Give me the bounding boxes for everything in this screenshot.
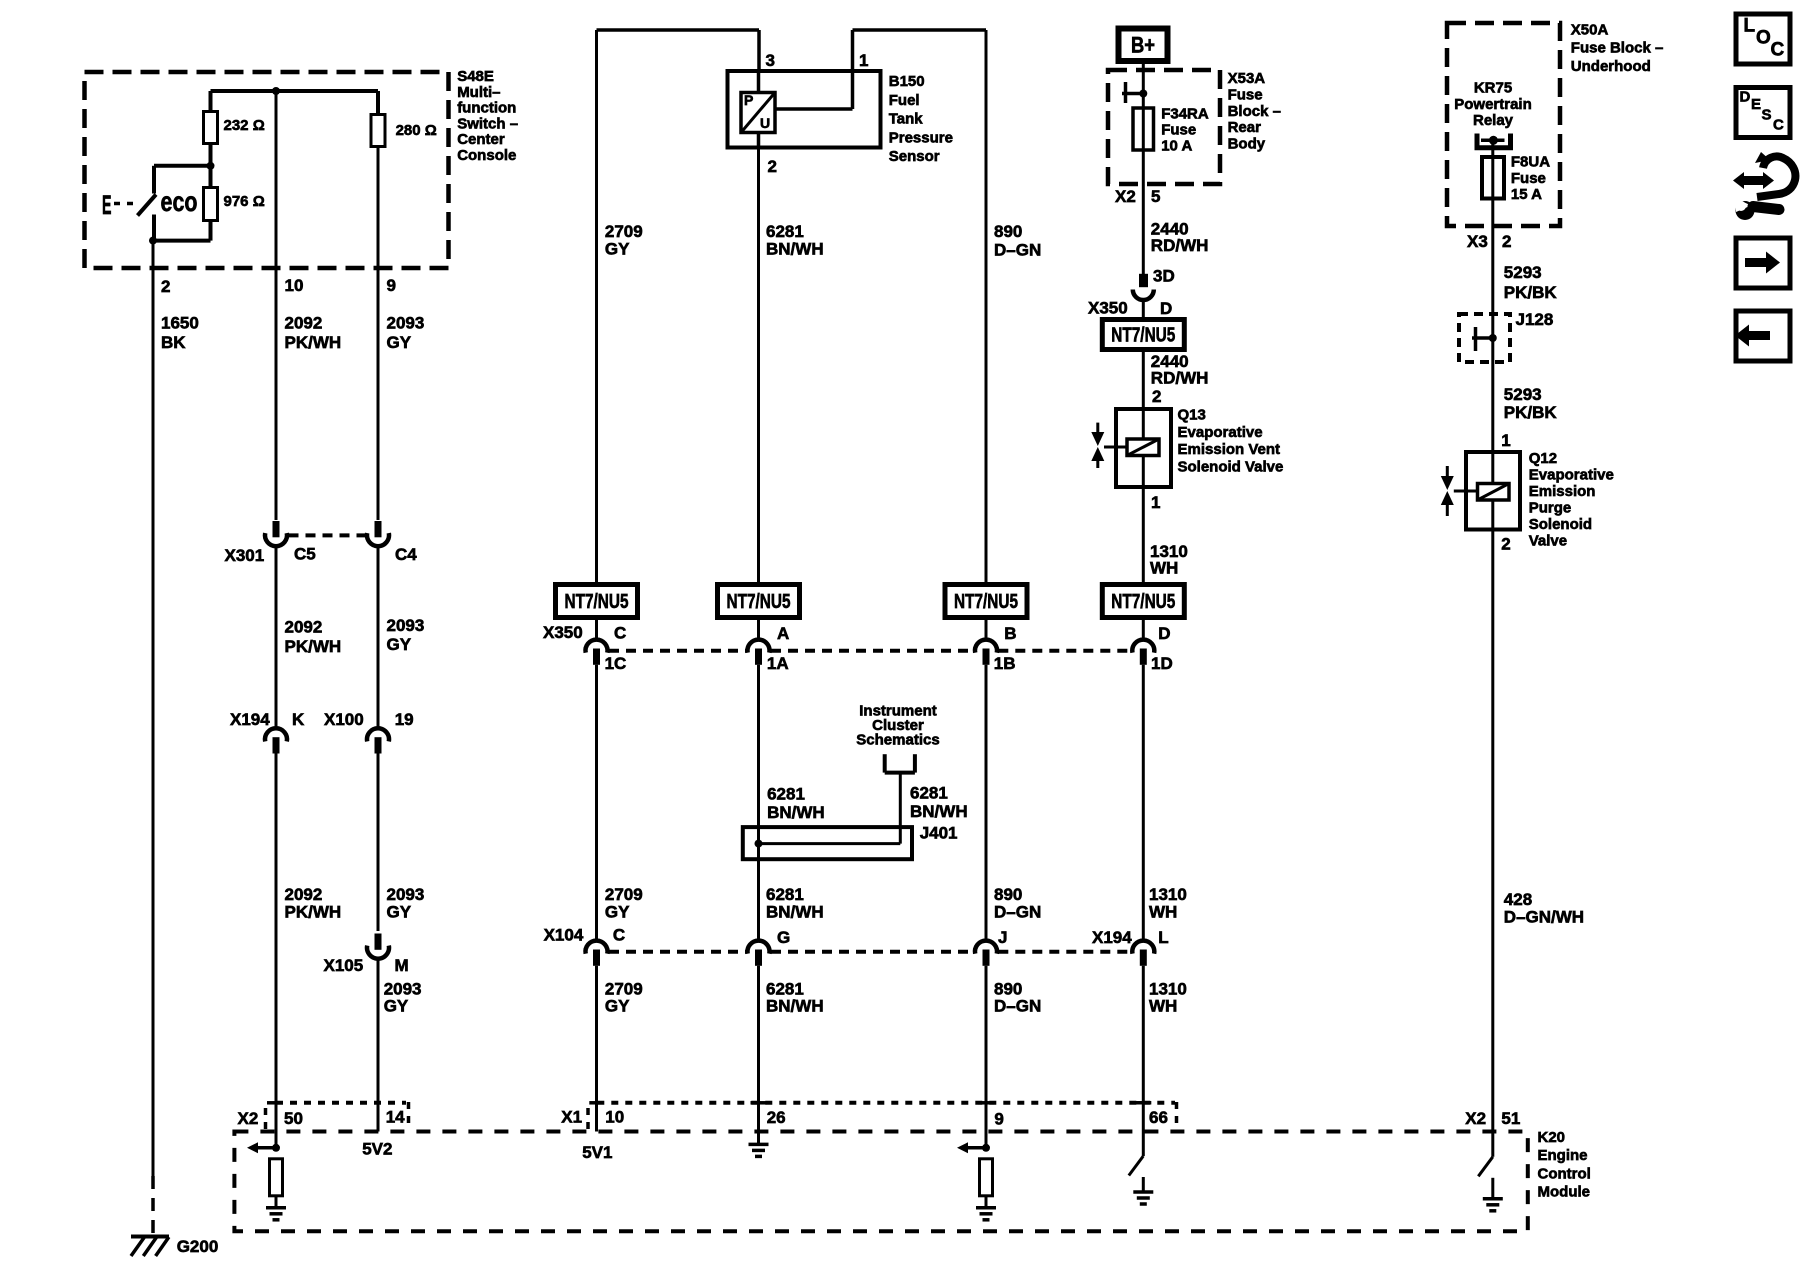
svg-text:1650: 1650: [161, 314, 199, 333]
switch to ground at ECM pin 51: [1491, 1133, 1494, 1157]
connector X301 pin C5: [265, 533, 287, 546]
svg-text:5293: 5293: [1504, 385, 1542, 404]
wire switch top contact: [154, 164, 211, 168]
svg-text:9: 9: [994, 1110, 1003, 1129]
svg-text:1310: 1310: [1149, 979, 1187, 998]
svg-text:50: 50: [284, 1109, 303, 1128]
resistor 280 Ohm: [376, 91, 380, 115]
grid reference NT7/NU5 box 1: [556, 585, 638, 618]
svg-text:BK: BK: [161, 333, 186, 352]
svg-text:10: 10: [605, 1108, 624, 1127]
svg-text:U: U: [760, 115, 770, 131]
svg-text:GY: GY: [387, 903, 412, 922]
svg-text:B+: B+: [1131, 33, 1155, 58]
svg-text:C: C: [1773, 117, 1784, 134]
wire B+ to fuse F34RA: [1142, 61, 1145, 274]
svg-text:1A: 1A: [767, 654, 789, 673]
connector X350 pin D upper cup: [1133, 290, 1154, 301]
svg-text:1: 1: [1151, 493, 1160, 512]
svg-text:X105: X105: [324, 956, 364, 975]
svg-text:D–GN/WH: D–GN/WH: [1504, 908, 1584, 927]
svg-text:Block –: Block –: [1228, 103, 1281, 120]
svg-text:GY: GY: [605, 997, 630, 1016]
wire 6281 BN/WH bottom segment: [757, 966, 760, 1145]
svg-text:D–GN: D–GN: [994, 241, 1041, 260]
svg-text:890: 890: [994, 222, 1022, 241]
svg-text:E: E: [1751, 96, 1761, 113]
svg-text:X350: X350: [543, 623, 583, 642]
ground at ECM pin 26: [749, 1143, 769, 1147]
wire 890 D-GN to X350: [985, 618, 988, 640]
svg-text:C: C: [613, 926, 625, 945]
svg-text:Solenoid: Solenoid: [1529, 516, 1592, 533]
splice J401 box: [743, 827, 912, 859]
svg-text:3D: 3D: [1153, 267, 1175, 286]
connector X104 pin C: [586, 941, 608, 954]
svg-text:2092: 2092: [285, 618, 323, 637]
svg-text:NT7/NU5: NT7/NU5: [565, 591, 629, 613]
svg-text:A: A: [777, 624, 789, 643]
connector X194 pin L: [1132, 941, 1154, 954]
svg-text:WH: WH: [1149, 903, 1177, 922]
valve arrows Q13: [1096, 423, 1099, 432]
svg-text:Multi–: Multi–: [457, 84, 500, 101]
wire 6281 BN/WH branch from cluster: [899, 773, 902, 844]
connector X350 pin C: [586, 640, 608, 653]
terminal 3D male pin: [1139, 274, 1148, 287]
svg-text:X3: X3: [1467, 232, 1488, 251]
svg-text:2093: 2093: [384, 979, 422, 998]
connector X350 pin B: [975, 640, 997, 653]
svg-text:9: 9: [387, 276, 396, 295]
svg-text:1: 1: [859, 51, 868, 70]
svg-text:X100: X100: [324, 710, 364, 729]
svg-text:B150: B150: [889, 73, 925, 90]
svg-text:D: D: [1740, 89, 1751, 106]
svg-text:2: 2: [161, 277, 170, 296]
dashed box X50A Fuse Block - Underhood: [1447, 23, 1560, 226]
icon wrench and arrows: [1743, 176, 1765, 185]
svg-text:3: 3: [766, 51, 775, 70]
svg-text:Control: Control: [1538, 1165, 1591, 1182]
dashed box K20 Engine Control Module: [234, 1132, 1527, 1232]
svg-text:K20: K20: [1538, 1129, 1566, 1146]
solenoid valve Q12 box: [1466, 452, 1520, 530]
connector X301 pin C4: [367, 533, 389, 546]
svg-text:eco: eco: [161, 186, 198, 217]
wire top bus inside S48E: [211, 89, 379, 93]
svg-text:232 Ω: 232 Ω: [224, 117, 265, 134]
sensor B150 box: [757, 71, 761, 148]
wire 1310 WH upper segment: [1142, 487, 1145, 585]
icon box LOC: [1736, 14, 1790, 64]
svg-text:14: 14: [386, 1108, 405, 1127]
svg-text:X350: X350: [1088, 299, 1128, 318]
svg-text:Purge: Purge: [1529, 500, 1572, 517]
svg-text:BN/WH: BN/WH: [766, 240, 824, 259]
svg-text:D–GN: D–GN: [994, 903, 1041, 922]
svg-text:976 Ω: 976 Ω: [224, 193, 265, 210]
sensor B150 P/U symbol: [741, 93, 775, 133]
wire into NT7/NU5: [1142, 301, 1145, 319]
svg-text:2709: 2709: [605, 979, 643, 998]
svg-text:Q12: Q12: [1529, 450, 1557, 467]
svg-text:L: L: [1744, 16, 1756, 37]
svg-text:2093: 2093: [387, 885, 425, 904]
relay contact symbol in X53A: [1124, 82, 1128, 103]
svg-text:BN/WH: BN/WH: [767, 803, 825, 822]
svg-text:KR75: KR75: [1474, 80, 1512, 97]
svg-text:1D: 1D: [1151, 654, 1173, 673]
svg-text:F34RA: F34RA: [1161, 105, 1209, 122]
svg-text:X301: X301: [225, 546, 265, 565]
svg-text:428: 428: [1504, 890, 1532, 909]
wire 2709 GY mid segment: [595, 665, 598, 940]
svg-text:6281: 6281: [766, 979, 804, 998]
wire 1650 BK: [152, 241, 155, 1176]
wire 1310 WH bottom segment: [1142, 966, 1145, 1132]
valve arrows Q12: [1446, 466, 1449, 476]
connector strip X2 at ECM: [264, 1108, 268, 1129]
svg-text:890: 890: [994, 885, 1022, 904]
svg-text:G: G: [777, 928, 790, 947]
svg-text:2: 2: [1502, 232, 1511, 251]
svg-text:WH: WH: [1150, 559, 1178, 578]
node junction top bus to pin 10 wire: [272, 87, 280, 95]
svg-text:2: 2: [768, 157, 777, 176]
svg-text:19: 19: [395, 710, 414, 729]
wire 2709 GY to X350: [595, 618, 598, 640]
resistor and arrow at ECM pin 9: [966, 1146, 986, 1150]
svg-text:NT7/NU5: NT7/NU5: [727, 591, 791, 613]
svg-text:GY: GY: [387, 635, 412, 654]
contact symbol in J128: [1474, 327, 1478, 351]
svg-text:Emission: Emission: [1529, 483, 1596, 500]
svg-text:2093: 2093: [387, 314, 425, 333]
grid reference NT7/NU5 box 2: [718, 585, 800, 618]
ground G200 chassis symbol: [131, 1235, 169, 1239]
svg-text:X53A: X53A: [1228, 70, 1266, 87]
svg-text:J: J: [998, 928, 1007, 947]
svg-text:Evaporative: Evaporative: [1529, 467, 1614, 484]
svg-text:C: C: [614, 624, 626, 643]
fuse F34RA 10A: [1133, 108, 1154, 150]
svg-text:Fuse: Fuse: [1161, 121, 1196, 138]
wire 890 D-GN bottom segment: [985, 966, 988, 1148]
svg-text:C: C: [1771, 39, 1785, 60]
dashed box S48E Multi-function Switch - Center Console: [85, 72, 449, 268]
wire 6281 BN/WH mid segment: [757, 665, 760, 940]
solenoid valve Q13 box: [1116, 409, 1171, 487]
resistor and arrow at ECM pin 50: [256, 1146, 276, 1150]
grid reference NT7/NU5 box 3: [945, 585, 1027, 618]
svg-text:Engine: Engine: [1538, 1147, 1588, 1164]
connector X104 pin G: [748, 941, 770, 954]
connector X350 pin D: [1132, 640, 1154, 653]
svg-text:PK/WH: PK/WH: [285, 637, 342, 656]
svg-text:Underhood: Underhood: [1571, 58, 1651, 75]
svg-text:GY: GY: [387, 333, 412, 352]
svg-text:2: 2: [1152, 387, 1161, 406]
svg-text:1C: 1C: [605, 654, 627, 673]
connector X194 pin K: [265, 728, 287, 741]
svg-text:GY: GY: [605, 903, 630, 922]
dashed box splice pack J128: [1459, 314, 1510, 362]
svg-text:Fuse: Fuse: [1511, 170, 1546, 187]
resistor 232 Ohm: [209, 91, 213, 112]
svg-text:6281: 6281: [766, 222, 804, 241]
svg-text:5293: 5293: [1504, 263, 1542, 282]
dashed connector row X104: [609, 950, 746, 954]
svg-text:5V1: 5V1: [582, 1143, 612, 1162]
svg-text:51: 51: [1501, 1109, 1520, 1128]
wire 2709 GY bottom segment: [595, 966, 598, 1132]
svg-text:GY: GY: [605, 240, 630, 259]
svg-text:X2: X2: [238, 1109, 259, 1128]
wire 1310 WH to X350: [1142, 618, 1145, 640]
svg-text:Switch –: Switch –: [457, 115, 518, 132]
connector X100 pin 19: [367, 728, 389, 741]
svg-text:PK/WH: PK/WH: [285, 333, 342, 352]
wire 6281 BN/WH to X350: [757, 618, 760, 640]
svg-text:PK/WH: PK/WH: [285, 903, 342, 922]
svg-text:X2: X2: [1115, 187, 1136, 206]
relay KR75 contact symbol: [1475, 134, 1480, 151]
svg-text:X2: X2: [1465, 1109, 1486, 1128]
svg-text:M: M: [395, 956, 409, 975]
svg-text:Body: Body: [1228, 136, 1266, 153]
node junction 232-976 resistors: [207, 162, 215, 170]
icon box arrow right: [1736, 238, 1790, 288]
wire switch bottom to pin 2: [152, 215, 156, 241]
svg-text:BN/WH: BN/WH: [910, 802, 968, 821]
power feed B+ box: [1119, 29, 1168, 62]
svg-text:S48E: S48E: [457, 68, 494, 85]
svg-text:Center: Center: [457, 131, 505, 148]
svg-text:F8UA: F8UA: [1511, 153, 1550, 170]
svg-text:6281: 6281: [767, 784, 805, 803]
wire 5293 PK/BK upper segment: [1491, 226, 1494, 452]
icon box arrow left: [1736, 311, 1790, 361]
switch eco blade: [138, 195, 157, 216]
svg-text:Q13: Q13: [1178, 406, 1206, 423]
svg-text:C5: C5: [294, 545, 316, 564]
wire 428 D-GN/WH: [1491, 530, 1494, 1133]
svg-text:10 A: 10 A: [1161, 137, 1192, 154]
wire 2092 PK/WH upper segment: [275, 91, 278, 520]
svg-text:J401: J401: [920, 823, 958, 842]
svg-text:2093: 2093: [387, 616, 425, 635]
svg-text:2092: 2092: [285, 314, 323, 333]
instrument cluster drop bracket: [883, 754, 887, 772]
svg-text:2: 2: [1501, 535, 1510, 554]
wire 2093 GY upper segment: [377, 147, 380, 521]
svg-text:Rear: Rear: [1228, 119, 1262, 136]
svg-text:280 Ω: 280 Ω: [396, 122, 437, 139]
svg-text:D–GN: D–GN: [994, 997, 1041, 1016]
svg-text:X194: X194: [230, 710, 270, 729]
svg-text:Sensor: Sensor: [889, 148, 940, 165]
svg-text:Evaporative: Evaporative: [1178, 424, 1263, 441]
wire 6281 BN/WH upper segment: [757, 148, 760, 585]
svg-text:S: S: [1762, 106, 1772, 123]
svg-text:Relay: Relay: [1473, 112, 1514, 129]
svg-text:6281: 6281: [910, 783, 948, 802]
svg-text:Tank: Tank: [889, 111, 924, 128]
svg-text:PK/BK: PK/BK: [1504, 283, 1558, 302]
svg-text:function: function: [457, 100, 516, 117]
svg-text:Pressure: Pressure: [889, 129, 953, 146]
svg-text:6281: 6281: [766, 885, 804, 904]
svg-text:26: 26: [767, 1108, 786, 1127]
svg-text:1B: 1B: [994, 654, 1016, 673]
node junction switch bottom: [149, 237, 157, 245]
svg-text:NT7/NU5: NT7/NU5: [954, 591, 1018, 613]
wire 2709 GY main segment: [595, 30, 598, 585]
svg-text:L: L: [1158, 928, 1168, 947]
switch eco actuator dashes: [114, 202, 137, 206]
svg-text:WH: WH: [1149, 997, 1177, 1016]
svg-text:D: D: [1160, 299, 1172, 318]
node splice J401 junction: [755, 840, 763, 848]
svg-text:K: K: [292, 710, 305, 729]
svg-text:O: O: [1756, 27, 1771, 48]
fuse F8UA 15A: [1482, 157, 1504, 199]
svg-text:PK/BK: PK/BK: [1504, 403, 1558, 422]
wire 890 D-GN top run: [853, 28, 987, 32]
resistor 976 Ohm: [209, 166, 213, 188]
wire 890 D-GN mid segment: [985, 665, 988, 940]
wire 2440 RD/WH to Q13: [1142, 350, 1145, 410]
dashed box X53A Fuse Block - Rear Body: [1108, 70, 1220, 184]
svg-text:Powertrain: Powertrain: [1454, 96, 1532, 113]
svg-text:Valve: Valve: [1529, 533, 1567, 550]
svg-text:Fuse Block –: Fuse Block –: [1571, 40, 1664, 57]
svg-text:5V2: 5V2: [362, 1139, 392, 1158]
svg-text:Fuse: Fuse: [1228, 86, 1263, 103]
wire 2093 GY segment 3: [377, 754, 380, 932]
wire 890 D-GN main segment: [985, 30, 988, 585]
svg-text:J128: J128: [1516, 310, 1554, 329]
svg-text:1: 1: [1501, 431, 1510, 450]
svg-text:Module: Module: [1538, 1183, 1591, 1200]
svg-text:X194: X194: [1092, 928, 1132, 947]
svg-text:66: 66: [1149, 1108, 1168, 1127]
svg-text:D: D: [1158, 624, 1170, 643]
svg-text:890: 890: [994, 979, 1022, 998]
svg-text:15 A: 15 A: [1511, 186, 1542, 203]
svg-text:BN/WH: BN/WH: [766, 903, 824, 922]
grid reference NT7/NU5 box top: [1102, 320, 1184, 350]
dashed tie C5-C4: [289, 533, 366, 537]
svg-text:NT7/NU5: NT7/NU5: [1111, 591, 1175, 613]
svg-text:Emission Vent: Emission Vent: [1178, 441, 1281, 458]
svg-text:B: B: [1004, 624, 1016, 643]
svg-text:2709: 2709: [605, 222, 643, 241]
wire 2092 PK/WH middle segment: [275, 548, 278, 728]
svg-text:C4: C4: [395, 545, 417, 564]
svg-text:G200: G200: [177, 1237, 219, 1256]
svg-text:E: E: [102, 190, 112, 220]
connector X105 pin M: [367, 946, 389, 959]
svg-text:X1: X1: [561, 1108, 582, 1127]
svg-text:RD/WH: RD/WH: [1151, 236, 1209, 255]
svg-text:Console: Console: [457, 147, 516, 164]
svg-text:5: 5: [1151, 187, 1160, 206]
svg-text:2092: 2092: [285, 885, 323, 904]
connector X350 pin A: [748, 640, 770, 653]
svg-text:Solenoid Valve: Solenoid Valve: [1178, 458, 1284, 475]
wire relay to fuse F8UA: [1491, 140, 1494, 226]
svg-text:BN/WH: BN/WH: [766, 997, 824, 1016]
wire 2093 GY segment 2: [377, 548, 380, 728]
dashed connector row X350: [609, 649, 746, 653]
switch to ground at ECM pin 66: [1142, 1132, 1145, 1156]
wire 2709 GY top run: [597, 28, 760, 32]
svg-text:Fuel: Fuel: [889, 92, 920, 109]
svg-text:X104: X104: [544, 926, 584, 945]
svg-text:X50A: X50A: [1571, 21, 1609, 38]
svg-text:2709: 2709: [605, 885, 643, 904]
svg-text:Schematics: Schematics: [856, 732, 939, 749]
svg-text:GY: GY: [384, 997, 409, 1016]
svg-text:1310: 1310: [1149, 885, 1187, 904]
grid reference NT7/NU5 box 4: [1102, 585, 1184, 618]
connector X104 pin J: [975, 941, 997, 954]
svg-text:NT7/NU5: NT7/NU5: [1111, 325, 1175, 347]
svg-text:P: P: [744, 92, 753, 108]
svg-text:RD/WH: RD/WH: [1151, 368, 1209, 387]
icon box DESC: [1736, 88, 1790, 138]
wire 2093 GY bottom segment: [377, 960, 380, 1132]
wire 2092 PK/WH lower segment: [275, 754, 278, 1148]
wire 1310 WH mid segment: [1142, 665, 1145, 940]
connector strip X1 at ECM: [586, 1108, 590, 1129]
svg-text:10: 10: [285, 276, 304, 295]
